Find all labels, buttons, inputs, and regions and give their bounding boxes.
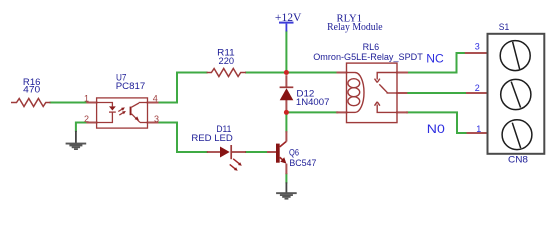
svg-text:470: 470 (23, 85, 40, 95)
svg-text:4: 4 (153, 94, 158, 104)
svg-text:NC: NC (426, 53, 444, 65)
svg-text:1: 1 (84, 94, 89, 104)
svg-text:2: 2 (84, 114, 89, 124)
svg-text:S1: S1 (499, 22, 509, 32)
svg-text:Relay Module: Relay Module (327, 22, 383, 33)
svg-text:1: 1 (476, 124, 481, 134)
svg-text:Omron-G5LE-Relay_SPDT: Omron-G5LE-Relay_SPDT (313, 52, 423, 62)
svg-text:3: 3 (475, 41, 480, 51)
svg-text:+12V: +12V (275, 12, 302, 24)
svg-text:PC817: PC817 (116, 81, 146, 91)
svg-text:3: 3 (154, 114, 159, 124)
svg-text:220: 220 (219, 56, 235, 66)
svg-text:2: 2 (475, 83, 480, 93)
svg-text:BC547: BC547 (289, 158, 316, 168)
svg-text:1N4007: 1N4007 (296, 97, 330, 107)
svg-text:RED LED: RED LED (191, 133, 233, 143)
svg-text:RL6: RL6 (363, 42, 380, 52)
svg-text:CN8: CN8 (508, 154, 528, 164)
svg-text:Q6: Q6 (289, 147, 299, 157)
svg-text:N0: N0 (427, 124, 445, 136)
